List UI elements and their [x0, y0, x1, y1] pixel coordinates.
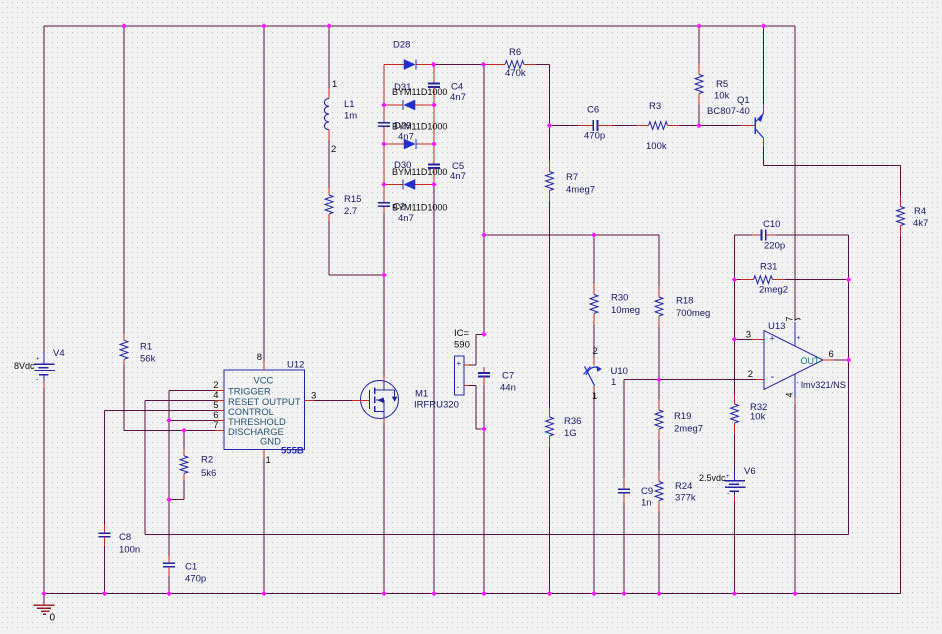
- diode D29: [384, 121, 447, 150]
- svg-text:R24: R24: [675, 481, 692, 492]
- svg-text:4meg7: 4meg7: [566, 185, 595, 196]
- svg-text:3: 3: [746, 330, 751, 341]
- wire: [168, 390, 170, 593]
- svg-text:2.7: 2.7: [344, 206, 357, 217]
- wire: [593, 235, 595, 358]
- svg-text:100n: 100n: [119, 545, 140, 556]
- svg-text:V6: V6: [744, 466, 756, 477]
- wire: [735, 338, 753, 340]
- capacitor C6: [578, 105, 612, 142]
- svg-text:1n: 1n: [641, 498, 652, 509]
- svg-text:U13: U13: [768, 321, 785, 332]
- svg-text:10k: 10k: [714, 91, 730, 102]
- svg-text:U10: U10: [611, 366, 628, 377]
- svg-text:C9: C9: [641, 486, 653, 497]
- svg-text:590: 590: [454, 340, 470, 351]
- svg-text:7: 7: [785, 316, 795, 321]
- svg-text:4k7: 4k7: [913, 218, 928, 229]
- resistor R24: [655, 471, 696, 512]
- svg-text:+: +: [36, 357, 40, 363]
- svg-text:D28: D28: [393, 40, 410, 51]
- wire: [763, 26, 765, 104]
- wire: [536, 65, 550, 126]
- svg-text:470k: 470k: [505, 68, 526, 79]
- resistor R2: [180, 449, 216, 480]
- wire: [469, 386, 485, 429]
- op-amp U13: [746, 316, 846, 404]
- svg-text:U12: U12: [287, 360, 304, 371]
- wire: [549, 126, 551, 594]
- svg-text:R31: R31: [760, 262, 777, 273]
- wire: [433, 65, 435, 594]
- initial condition IC1: [454, 328, 470, 395]
- svg-text:M1: M1: [415, 389, 428, 400]
- svg-text:lmv321/NS: lmv321/NS: [801, 380, 846, 390]
- svg-text:1: 1: [592, 391, 597, 402]
- wire: [44, 25, 795, 27]
- svg-text:1: 1: [611, 377, 616, 388]
- svg-text:2meg2: 2meg2: [759, 285, 788, 296]
- ground 0: [34, 594, 56, 624]
- wire: [658, 235, 660, 380]
- svg-text:R7: R7: [566, 172, 578, 183]
- svg-text:2meg7: 2meg7: [674, 424, 703, 435]
- wire: [124, 365, 215, 430]
- resistor R3: [637, 101, 679, 152]
- wire: [624, 379, 756, 381]
- svg-text:+: +: [797, 335, 801, 342]
- resistor R31: [741, 262, 788, 296]
- svg-text:+: +: [770, 334, 775, 344]
- svg-text:10k: 10k: [750, 412, 766, 423]
- resistor R15: [325, 188, 361, 221]
- inductor L1: [324, 79, 357, 155]
- svg-text:8: 8: [257, 352, 262, 363]
- svg-text:IRFRU320: IRFRU320: [414, 400, 459, 411]
- wire: [658, 380, 660, 594]
- svg-text:BYM11D1000: BYM11D1000: [392, 122, 447, 132]
- svg-text:4n7: 4n7: [398, 213, 414, 224]
- wire: [623, 380, 625, 594]
- svg-text:C7: C7: [502, 371, 514, 382]
- svg-text:700meg: 700meg: [676, 308, 710, 319]
- capacitor C10: [752, 219, 785, 252]
- svg-text:0: 0: [50, 613, 56, 624]
- transistor Q1: [707, 95, 764, 147]
- wire: [169, 430, 184, 499]
- resistor R18: [655, 286, 710, 327]
- svg-text:Q1: Q1: [737, 95, 750, 106]
- svg-text:100k: 100k: [646, 141, 667, 152]
- wire: [698, 26, 700, 126]
- svg-text:BC807-40: BC807-40: [707, 106, 750, 117]
- capacitor C8: [98, 524, 140, 556]
- svg-text:C8: C8: [119, 532, 131, 543]
- wire: [43, 26, 45, 352]
- capacitor C1: [163, 556, 206, 585]
- wire: [104, 546, 106, 594]
- svg-text:5k6: 5k6: [201, 468, 216, 479]
- wire: [169, 419, 215, 421]
- resistor R36: [546, 408, 582, 448]
- wire: [383, 423, 385, 594]
- svg-text:C1: C1: [185, 562, 197, 573]
- svg-text:R5: R5: [716, 79, 728, 90]
- wire: [483, 385, 485, 594]
- resistor R5: [695, 64, 729, 105]
- capacitor C9: [618, 478, 653, 509]
- wire: [434, 64, 484, 66]
- wire: [469, 334, 485, 365]
- capacitor C4: [428, 77, 466, 103]
- timer U12: [213, 352, 316, 466]
- wire: [484, 234, 659, 236]
- svg-text:R36: R36: [564, 416, 581, 427]
- svg-text:R30: R30: [611, 293, 628, 304]
- svg-text:10meg: 10meg: [611, 305, 640, 316]
- wire: [383, 65, 385, 276]
- svg-text:C10: C10: [763, 219, 780, 230]
- wire: [44, 593, 901, 595]
- diode D31: [384, 82, 447, 110]
- wire: [169, 389, 215, 391]
- svg-text:L1: L1: [344, 99, 355, 110]
- capacitor C2: [378, 196, 448, 224]
- svg-text:3: 3: [311, 391, 316, 402]
- svg-text:56k: 56k: [140, 354, 156, 365]
- svg-text:8Vdc: 8Vdc: [14, 361, 35, 371]
- wire: [263, 26, 265, 361]
- resistor R7: [546, 161, 595, 202]
- svg-text:1: 1: [332, 79, 337, 90]
- svg-text:C4: C4: [451, 82, 463, 93]
- svg-text:BYM11D1000: BYM11D1000: [392, 203, 447, 213]
- wire: [900, 237, 902, 594]
- svg-text:555B: 555B: [281, 446, 304, 457]
- wire: [43, 388, 45, 594]
- svg-text:VCC: VCC: [254, 374, 274, 385]
- svg-text:C6: C6: [587, 105, 599, 116]
- svg-text:1m: 1m: [344, 111, 357, 122]
- resistor R32: [731, 395, 768, 435]
- wire: [735, 234, 849, 236]
- wire: [123, 26, 125, 334]
- svg-text:6: 6: [829, 349, 834, 360]
- wire: [263, 458, 265, 594]
- resistor R4: [897, 196, 929, 237]
- wire: [593, 394, 595, 594]
- svg-text:R1: R1: [140, 342, 152, 353]
- wire: [734, 434, 736, 469]
- svg-text:377k: 377k: [675, 493, 696, 504]
- svg-text:R6: R6: [509, 47, 521, 58]
- wire: [328, 26, 330, 88]
- wire: [145, 534, 849, 536]
- wire: [834, 359, 848, 361]
- switch U10: [584, 346, 628, 402]
- svg-text:7: 7: [213, 420, 218, 431]
- svg-text:IC=: IC=: [454, 328, 470, 339]
- resistor R1: [120, 334, 155, 365]
- svg-text:470p: 470p: [185, 574, 206, 585]
- wire: [735, 279, 849, 281]
- resistor R30: [590, 284, 640, 325]
- svg-text:-: -: [457, 383, 460, 392]
- capacitor C7: [478, 367, 516, 394]
- svg-text:1: 1: [266, 455, 271, 466]
- capacitor C5: [428, 158, 466, 182]
- svg-text:4n7: 4n7: [450, 92, 466, 103]
- wire: [328, 140, 330, 188]
- svg-text:2.5vdc: 2.5vdc: [699, 473, 726, 483]
- diode D28: [384, 40, 434, 70]
- svg-text:4n7: 4n7: [450, 171, 466, 182]
- svg-text:+: +: [726, 474, 730, 480]
- wire: [794, 26, 796, 321]
- svg-text:44n: 44n: [500, 383, 516, 394]
- svg-text:1G: 1G: [564, 428, 577, 439]
- svg-text:R4: R4: [914, 206, 926, 217]
- svg-text:BYM11D1000: BYM11D1000: [392, 87, 447, 97]
- wire: [794, 404, 796, 594]
- wire: [105, 410, 216, 524]
- resistor R19: [655, 399, 703, 440]
- svg-text:R3: R3: [649, 101, 661, 112]
- svg-text:2: 2: [748, 369, 753, 380]
- capacitor C3: [378, 116, 414, 143]
- svg-text:V4: V4: [53, 348, 65, 359]
- svg-text:-: -: [771, 371, 775, 383]
- svg-text:R18: R18: [676, 296, 693, 307]
- resistor R6: [484, 47, 537, 79]
- wire: [483, 65, 485, 335]
- wire: [383, 275, 385, 377]
- wire: [734, 235, 736, 395]
- diode D30: [384, 160, 447, 190]
- wire: [145, 400, 215, 534]
- svg-text:470p: 470p: [584, 131, 605, 142]
- wire: [848, 235, 850, 535]
- svg-text:+: +: [457, 359, 462, 368]
- svg-text:R19: R19: [674, 411, 691, 422]
- wire: [734, 495, 736, 594]
- wire: [550, 125, 700, 127]
- svg-text:R15: R15: [344, 194, 361, 205]
- voltage source V4: [14, 348, 65, 388]
- svg-text:OUT: OUT: [801, 356, 821, 366]
- wire: [329, 221, 384, 275]
- svg-text:GND: GND: [260, 436, 281, 447]
- mosfet M1: [315, 377, 459, 424]
- wire: [764, 147, 901, 196]
- svg-text:R2: R2: [201, 454, 213, 465]
- voltage source V6: [699, 466, 756, 502]
- wire: [699, 125, 740, 127]
- svg-text:220p: 220p: [764, 241, 785, 252]
- svg-text:2: 2: [331, 144, 336, 155]
- svg-text:4: 4: [785, 392, 795, 397]
- svg-text:2: 2: [593, 346, 598, 357]
